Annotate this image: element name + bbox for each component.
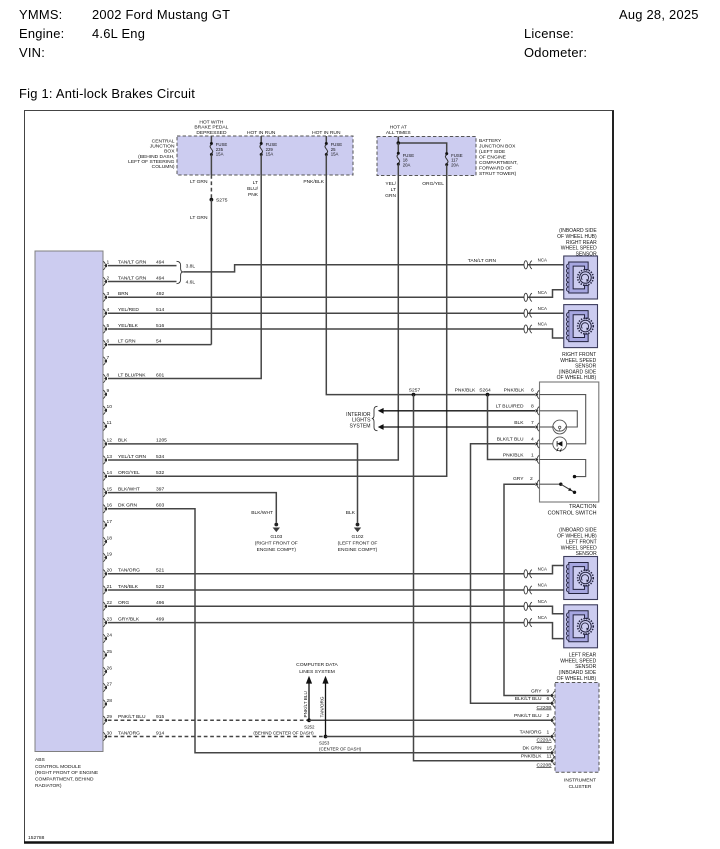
wire LT GRN fuse 235 to S275 (dashed)	[190, 175, 211, 200]
svg-text:CONTROL MODULE: CONTROL MODULE	[35, 764, 82, 770]
svg-text:BLK: BLK	[514, 420, 524, 426]
connector C220B label lower	[537, 763, 552, 769]
svg-text:522: 522	[156, 584, 164, 590]
svg-text:15A: 15A	[266, 151, 274, 156]
svg-text:20A: 20A	[403, 162, 411, 167]
svg-text:8: 8	[107, 372, 110, 378]
ABS pin 4	[103, 307, 164, 317]
junction dot BJB bus	[397, 141, 401, 145]
svg-text:152788: 152788	[28, 835, 45, 841]
left rear wheel speed sensor	[557, 605, 598, 682]
svg-text:HOT AT: HOT AT	[390, 125, 407, 131]
svg-text:3: 3	[107, 291, 110, 297]
ABS pin 25	[103, 649, 112, 659]
wire switch internal pin 4 to LED	[540, 443, 554, 445]
ABS pin 12	[103, 438, 167, 448]
svg-text:COMPARTMENT,: COMPARTMENT,	[479, 160, 518, 166]
wire PNK/LT BLU S252 to instrument cluster pin 2	[309, 719, 552, 721]
ABS pin 22	[103, 600, 164, 610]
svg-text:FORWARD OF: FORWARD OF	[479, 166, 512, 172]
wire switch internal pin 2 to pivot	[540, 483, 561, 485]
svg-text:LT GRN: LT GRN	[190, 179, 208, 185]
svg-text:RADIATOR): RADIATOR)	[35, 783, 62, 789]
svg-text:9: 9	[107, 388, 110, 394]
cluster pin 1 TAN/ORG	[520, 729, 555, 740]
svg-text:ALL TIMES: ALL TIMES	[386, 130, 411, 136]
svg-text:15A: 15A	[216, 151, 224, 156]
fuse 18 20A	[397, 143, 414, 176]
svg-text:10: 10	[107, 404, 113, 410]
traction switch pin 8	[536, 407, 540, 415]
svg-text:915: 915	[156, 714, 164, 720]
ABS pin 18	[103, 535, 112, 545]
svg-text:NCA: NCA	[538, 583, 547, 588]
wire ORG/YEL fuse 117 to pin 14	[108, 176, 447, 477]
brace 3.8L/4.6L engine split	[177, 261, 196, 285]
svg-text:BATTERY: BATTERY	[479, 138, 502, 144]
ABS control module U1	[35, 251, 103, 789]
svg-text:26: 26	[107, 665, 113, 671]
ABS pin 9	[103, 388, 109, 398]
ABS pin 23	[103, 616, 164, 626]
svg-text:1: 1	[531, 452, 534, 458]
svg-text:516: 516	[156, 323, 164, 329]
svg-text:603: 603	[156, 503, 164, 509]
svg-text:30: 30	[107, 730, 113, 736]
splice S257	[409, 388, 421, 397]
svg-text:15: 15	[547, 746, 553, 752]
svg-text:TAN/ORG: TAN/ORG	[320, 696, 325, 717]
svg-text:LT: LT	[391, 187, 396, 193]
svg-text:TAN/LT GRN: TAN/LT GRN	[468, 258, 497, 264]
svg-text:2: 2	[107, 275, 110, 281]
ABS pin 5	[103, 323, 164, 333]
svg-text:21: 21	[107, 584, 113, 590]
wire LT GRN pin 6	[108, 344, 212, 346]
svg-text:BLK/WHT: BLK/WHT	[251, 510, 273, 516]
svg-text:521: 521	[156, 568, 164, 574]
connector NCA (GRY/BLK)	[524, 615, 547, 627]
svg-text:SENSOR: SENSOR	[576, 551, 598, 557]
svg-text:GRY: GRY	[531, 688, 542, 694]
connector NCA (TAN/LT GRN)	[524, 257, 547, 269]
svg-text:SENSOR: SENSOR	[576, 251, 598, 257]
traction switch pin 4	[536, 440, 540, 448]
svg-text:2: 2	[547, 713, 550, 719]
wire TAN/LT GRN pins 1,2 to engine brace	[108, 266, 177, 282]
svg-text:NCA: NCA	[538, 306, 547, 311]
svg-text:29: 29	[107, 714, 113, 720]
svg-text:LT BLU/RED: LT BLU/RED	[496, 404, 524, 410]
svg-text:(BEHIND DASH,: (BEHIND DASH,	[138, 154, 174, 160]
traction switch pin 1	[536, 455, 540, 463]
connector C220A label	[537, 738, 553, 744]
wire LT BLU/PNK fuse 229 to pin 8	[108, 175, 261, 379]
svg-text:OF WHEEL HUB): OF WHEEL HUB)	[557, 676, 597, 682]
svg-text:SYSTEM: SYSTEM	[350, 423, 371, 429]
svg-text:TAN/BLK: TAN/BLK	[118, 584, 139, 590]
traction switch pin 7	[536, 423, 540, 431]
svg-text:1205: 1205	[156, 438, 167, 444]
connector C220B label	[537, 705, 552, 711]
ABS pin 29	[103, 714, 164, 724]
svg-text:19: 19	[107, 551, 113, 557]
svg-text:INSTRUMENT: INSTRUMENT	[564, 778, 596, 784]
svg-text:S275: S275	[216, 198, 228, 204]
svg-text:6: 6	[547, 696, 550, 702]
ABS pin 10	[103, 404, 112, 414]
svg-text:NCA: NCA	[538, 257, 547, 262]
svg-text:8: 8	[531, 404, 534, 410]
svg-text:PNK/BLK: PNK/BLK	[455, 388, 476, 394]
fuse 117 20A	[445, 152, 462, 175]
wire switch internal pin 7 to lamp	[540, 426, 553, 428]
svg-text:GRN: GRN	[385, 193, 396, 199]
svg-text:S264: S264	[479, 388, 491, 394]
svg-text:1: 1	[107, 259, 110, 265]
svg-text:BLK: BLK	[346, 510, 356, 516]
wire PNK/BLK S264 to traction switch pin 1	[488, 395, 536, 460]
svg-text:15A: 15A	[331, 151, 339, 156]
svg-text:499: 499	[156, 616, 164, 622]
svg-text:NCA: NCA	[538, 599, 547, 604]
wire BLK/WHT pin 15 to ground G103	[108, 493, 276, 523]
svg-text:LINES SYSTEM: LINES SYSTEM	[299, 669, 335, 675]
left front wheel speed sensor	[557, 528, 597, 600]
svg-text:BLU/: BLU/	[247, 186, 259, 192]
svg-text:TAN/ORG: TAN/ORG	[118, 730, 140, 736]
svg-text:PNK/LT BLU: PNK/LT BLU	[303, 690, 308, 717]
svg-text:NCA: NCA	[538, 566, 547, 571]
svg-text:CENTRAL: CENTRAL	[152, 139, 175, 145]
svg-text:13: 13	[107, 454, 113, 460]
splice S264	[479, 388, 491, 397]
right rear wheel speed sensor	[557, 228, 597, 299]
svg-text:11: 11	[107, 420, 112, 426]
svg-text:15: 15	[107, 486, 113, 492]
connector NCA (TAN/ORG)	[524, 566, 547, 578]
svg-text:PNK/BLK: PNK/BLK	[521, 754, 542, 760]
wire LT GRN S275 down to pin 6 row	[190, 200, 211, 345]
svg-text:20: 20	[107, 568, 113, 574]
svg-text:JUNCTION BOX: JUNCTION BOX	[479, 144, 516, 150]
switch blade	[559, 483, 576, 494]
ABS pin 27	[103, 681, 112, 691]
svg-text:G103: G103	[270, 534, 282, 540]
ground G102	[338, 523, 378, 553]
svg-text:NCA: NCA	[538, 290, 547, 295]
svg-text:PNK/LT BLU: PNK/LT BLU	[514, 713, 542, 719]
svg-text:TAN/LT GRN: TAN/LT GRN	[118, 275, 147, 281]
svg-text:COMPARTMENT, BEHIND: COMPARTMENT, BEHIND	[35, 777, 94, 783]
svg-text:LT GRN: LT GRN	[118, 338, 136, 344]
ABS pin 28	[103, 698, 112, 708]
svg-text:492: 492	[156, 291, 164, 297]
svg-text:S253: S253	[319, 740, 330, 745]
ABS pin 11	[103, 420, 112, 430]
cluster pin 2 PNK/LT BLU	[514, 713, 555, 724]
switch contact A	[573, 475, 576, 478]
svg-text:23: 23	[107, 616, 113, 622]
central junction box	[128, 136, 353, 175]
traction control switch S1	[540, 382, 599, 516]
splice S252	[253, 718, 315, 735]
svg-text:496: 496	[156, 600, 164, 606]
connector NCA (BRN)	[524, 290, 547, 302]
ABS pin 17	[103, 519, 112, 529]
ABS pin 24	[103, 632, 112, 642]
svg-text:BOX: BOX	[164, 149, 175, 155]
cluster pin 11 PNK/BLK	[521, 754, 555, 765]
ABS pin 30	[103, 730, 164, 740]
svg-text:28: 28	[107, 698, 113, 704]
svg-text:ENGINE COMPT): ENGINE COMPT)	[257, 547, 297, 553]
wire LT BLU/RED traction switch pin 8 to interior lights	[378, 404, 535, 414]
ABS pin 3	[103, 291, 164, 301]
svg-text:601: 601	[156, 372, 164, 378]
ABS pin 2	[103, 275, 164, 285]
svg-text:494: 494	[156, 259, 164, 265]
svg-text:532: 532	[156, 470, 164, 476]
wire GRY traction switch pin 2 to instrument cluster pin 9	[504, 476, 552, 695]
fuse 25 15A	[325, 136, 342, 175]
svg-text:G102: G102	[352, 534, 364, 540]
svg-text:JUNCTION: JUNCTION	[150, 144, 175, 150]
cluster pin 6 BLK/LT BLU	[515, 696, 555, 707]
svg-text:STRUT TOWER): STRUT TOWER)	[479, 171, 517, 177]
wire TAN/ORG S253 to instrument cluster pin 1	[326, 736, 553, 738]
wire TAN/ORG pin 30 dashed to S253	[108, 736, 326, 738]
ABS pin 26	[103, 665, 112, 675]
ABS pin 13	[103, 454, 164, 464]
svg-text:ABS: ABS	[35, 757, 46, 763]
svg-text:DK GRN: DK GRN	[522, 746, 541, 752]
svg-text:BRAKE PEDAL: BRAKE PEDAL	[194, 125, 228, 131]
svg-text:BLK/WHT: BLK/WHT	[118, 486, 140, 492]
svg-text:BLK/LT BLU: BLK/LT BLU	[497, 437, 524, 443]
svg-text:ORG: ORG	[118, 600, 129, 606]
wire BRN pin 3 to right rear wheel speed sensor	[108, 290, 566, 298]
ABS pin 7	[103, 355, 109, 365]
traction switch pin 2	[536, 480, 540, 488]
svg-text:17: 17	[107, 519, 113, 525]
svg-text:54: 54	[156, 338, 162, 344]
svg-text:DEPRESSED: DEPRESSED	[196, 130, 227, 136]
svg-text:534: 534	[156, 454, 164, 460]
wire BJB feed bus	[398, 137, 446, 154]
svg-text:24: 24	[107, 632, 113, 638]
svg-text:PNK/BLK: PNK/BLK	[503, 452, 524, 458]
splice S253	[319, 735, 362, 752]
svg-text:LT: LT	[253, 180, 258, 186]
wire switch internal pin 1 to contact	[540, 460, 586, 477]
traction switch pin 6	[536, 390, 540, 398]
svg-text:TAN/ORG: TAN/ORG	[520, 729, 542, 735]
svg-text:HOT WITH: HOT WITH	[199, 119, 224, 125]
svg-text:OF WHEEL HUB): OF WHEEL HUB)	[557, 375, 597, 381]
svg-text:18: 18	[107, 535, 113, 541]
svg-text:PNK/BLK: PNK/BLK	[504, 388, 525, 394]
ABS pin 8	[103, 372, 164, 382]
svg-text:397: 397	[156, 486, 164, 492]
cluster pin 9 GRY	[531, 688, 555, 699]
svg-text:BRN: BRN	[118, 291, 129, 297]
svg-text:25: 25	[107, 649, 113, 655]
svg-text:HOT IN RUN: HOT IN RUN	[312, 130, 341, 136]
computer data lines system arrows	[296, 662, 338, 736]
indicator lamp	[553, 420, 567, 434]
connector NCA (TAN/BLK)	[524, 583, 547, 595]
svg-text:LT GRN: LT GRN	[190, 215, 208, 221]
battery junction box	[377, 137, 518, 178]
svg-text:PNK/LT BLU: PNK/LT BLU	[118, 714, 146, 720]
instrument cluster	[555, 683, 599, 791]
wire TAN/BLK pin 21 to left front wheel speed sensor	[108, 589, 566, 591]
svg-text:YEL/RED: YEL/RED	[118, 307, 139, 313]
svg-text:4.6L: 4.6L	[186, 279, 196, 285]
svg-text:GRY/BLK: GRY/BLK	[118, 616, 140, 622]
wire switch internal pin 8 to lamp	[540, 411, 578, 427]
wire DK GRN pin 16 to instrument cluster pin 15	[108, 509, 552, 753]
fuse 235 15A	[210, 136, 227, 175]
svg-text:TAN/LT GRN: TAN/LT GRN	[118, 259, 147, 265]
svg-text:12: 12	[107, 438, 113, 444]
wire YEL/LT GRN fuse 18 to pin 13	[108, 176, 398, 461]
ABS pin 19	[103, 551, 112, 561]
svg-text:YEL/: YEL/	[385, 181, 396, 187]
svg-text:(RIGHT FRONT OF: (RIGHT FRONT OF	[255, 541, 298, 547]
svg-text:6: 6	[531, 388, 534, 394]
svg-text:OF ENGINE: OF ENGINE	[479, 154, 507, 160]
svg-text:(BEHIND CENTER OF DASH): (BEHIND CENTER OF DASH)	[253, 731, 314, 736]
svg-text:2: 2	[530, 476, 533, 482]
svg-text:11: 11	[547, 754, 552, 760]
ABS pin 1	[103, 259, 164, 269]
svg-text:NCA: NCA	[538, 322, 547, 327]
node HOT WITH BRAKE PEDAL DEPRESSED	[194, 119, 228, 135]
ground G103	[255, 523, 298, 553]
svg-text:COMPUTER DATA: COMPUTER DATA	[296, 662, 338, 668]
svg-text:LT BLU/PNK: LT BLU/PNK	[118, 372, 146, 378]
svg-text:(CENTER OF DASH): (CENTER OF DASH)	[319, 747, 362, 752]
svg-text:YEL/BLK: YEL/BLK	[118, 323, 139, 329]
wire GRY/BLK pin 23 to left rear wheel speed sensor	[108, 623, 566, 639]
svg-text:ORG/YEL: ORG/YEL	[422, 181, 444, 187]
wire switch internal pin 6 to LED	[540, 395, 586, 444]
svg-text:5: 5	[107, 323, 110, 329]
svg-text:(RIGHT FRONT OF ENGINE: (RIGHT FRONT OF ENGINE	[35, 770, 99, 776]
svg-text:(LEFT SIDE: (LEFT SIDE	[479, 149, 506, 155]
cluster pin 15 DK GRN	[522, 746, 554, 757]
svg-text:S252: S252	[304, 725, 315, 730]
wire PNK/BLK S257 to instrument cluster pin 11	[414, 395, 553, 761]
svg-text:4: 4	[107, 307, 110, 313]
svg-text:S257: S257	[409, 388, 421, 394]
svg-text:20A: 20A	[451, 162, 459, 167]
svg-text:914: 914	[156, 730, 164, 736]
ABS pin 14	[103, 470, 164, 480]
ABS pin 15	[103, 486, 164, 496]
svg-text:9: 9	[547, 688, 550, 694]
ABS pin 6	[103, 338, 161, 348]
svg-text:BLK/LT BLU: BLK/LT BLU	[515, 696, 542, 702]
svg-text:NCA: NCA	[538, 615, 547, 620]
ABS pin 21	[103, 584, 164, 594]
right front wheel speed sensor	[557, 305, 598, 382]
svg-text:7: 7	[531, 420, 534, 426]
wire TAN/ORG pin 20 to left front wheel speed sensor	[108, 566, 566, 574]
fuse 229 15A	[260, 136, 277, 175]
node HOT AT ALL TIMES	[386, 125, 411, 136]
svg-text:494: 494	[156, 275, 164, 281]
indicator LED	[553, 437, 567, 452]
svg-text:7: 7	[107, 355, 110, 361]
svg-text:ENGINE COMPT): ENGINE COMPT)	[338, 547, 378, 553]
svg-text:YEL/LT GRN: YEL/LT GRN	[118, 454, 147, 460]
wire BLK traction switch pin 7 to interior lights	[378, 420, 535, 430]
svg-text:GRY: GRY	[513, 476, 524, 482]
splice S275	[210, 198, 228, 204]
svg-text:CONTROL SWITCH: CONTROL SWITCH	[548, 510, 597, 516]
svg-text:514: 514	[156, 307, 164, 313]
wire YEL/RED pin 4 to right front wheel speed sensor	[108, 312, 566, 314]
svg-text:3.8L: 3.8L	[186, 264, 196, 270]
svg-text:LEFT OF STEERING: LEFT OF STEERING	[128, 159, 175, 165]
svg-text:TRACTION: TRACTION	[569, 504, 597, 510]
wire PNK/LT BLU pin 29 dashed to S252	[108, 719, 309, 721]
connector NCA (YEL/RED)	[524, 306, 547, 318]
svg-text:PNK: PNK	[248, 192, 259, 198]
svg-text:6: 6	[107, 338, 110, 344]
svg-text:1: 1	[547, 729, 550, 735]
wire YEL/BLK pin 5 to right front wheel speed sensor	[108, 329, 566, 338]
interior lights system	[346, 406, 377, 430]
svg-text:4: 4	[531, 437, 534, 443]
ABS pin 20	[103, 568, 164, 578]
svg-text:HOT IN RUN: HOT IN RUN	[247, 130, 276, 136]
diagram border frame	[25, 111, 614, 843]
svg-text:(LEFT FRONT OF: (LEFT FRONT OF	[338, 541, 378, 547]
wire BLK/LT BLU traction switch pin 4 to instrument cluster pin 6	[471, 437, 553, 704]
svg-text:22: 22	[107, 600, 113, 606]
svg-text:BLK: BLK	[118, 438, 128, 444]
svg-text:DK GRN: DK GRN	[118, 503, 137, 509]
wire ORG pin 22 to left rear wheel speed sensor	[108, 606, 566, 614]
wire TAN/LT GRN to right rear wheel speed sensor	[183, 258, 566, 272]
svg-text:CLUSTER: CLUSTER	[569, 784, 592, 790]
svg-text:14: 14	[107, 470, 113, 476]
svg-text:PNK/BLK: PNK/BLK	[303, 179, 324, 185]
svg-text:COLUMN): COLUMN)	[152, 164, 175, 170]
svg-text:27: 27	[107, 681, 113, 687]
ABS pin 16	[103, 503, 164, 513]
wire PNK/BLK fuse 25 to traction control switch pin 6	[303, 175, 535, 395]
svg-text:16: 16	[107, 503, 113, 509]
connector NCA (ORG)	[524, 599, 547, 611]
svg-text:ORG/YEL: ORG/YEL	[118, 470, 140, 476]
svg-text:TAN/ORG: TAN/ORG	[118, 568, 140, 574]
connector NCA (YEL/BLK)	[524, 322, 547, 334]
wire BLK pin 12 to ground G102	[108, 444, 358, 523]
